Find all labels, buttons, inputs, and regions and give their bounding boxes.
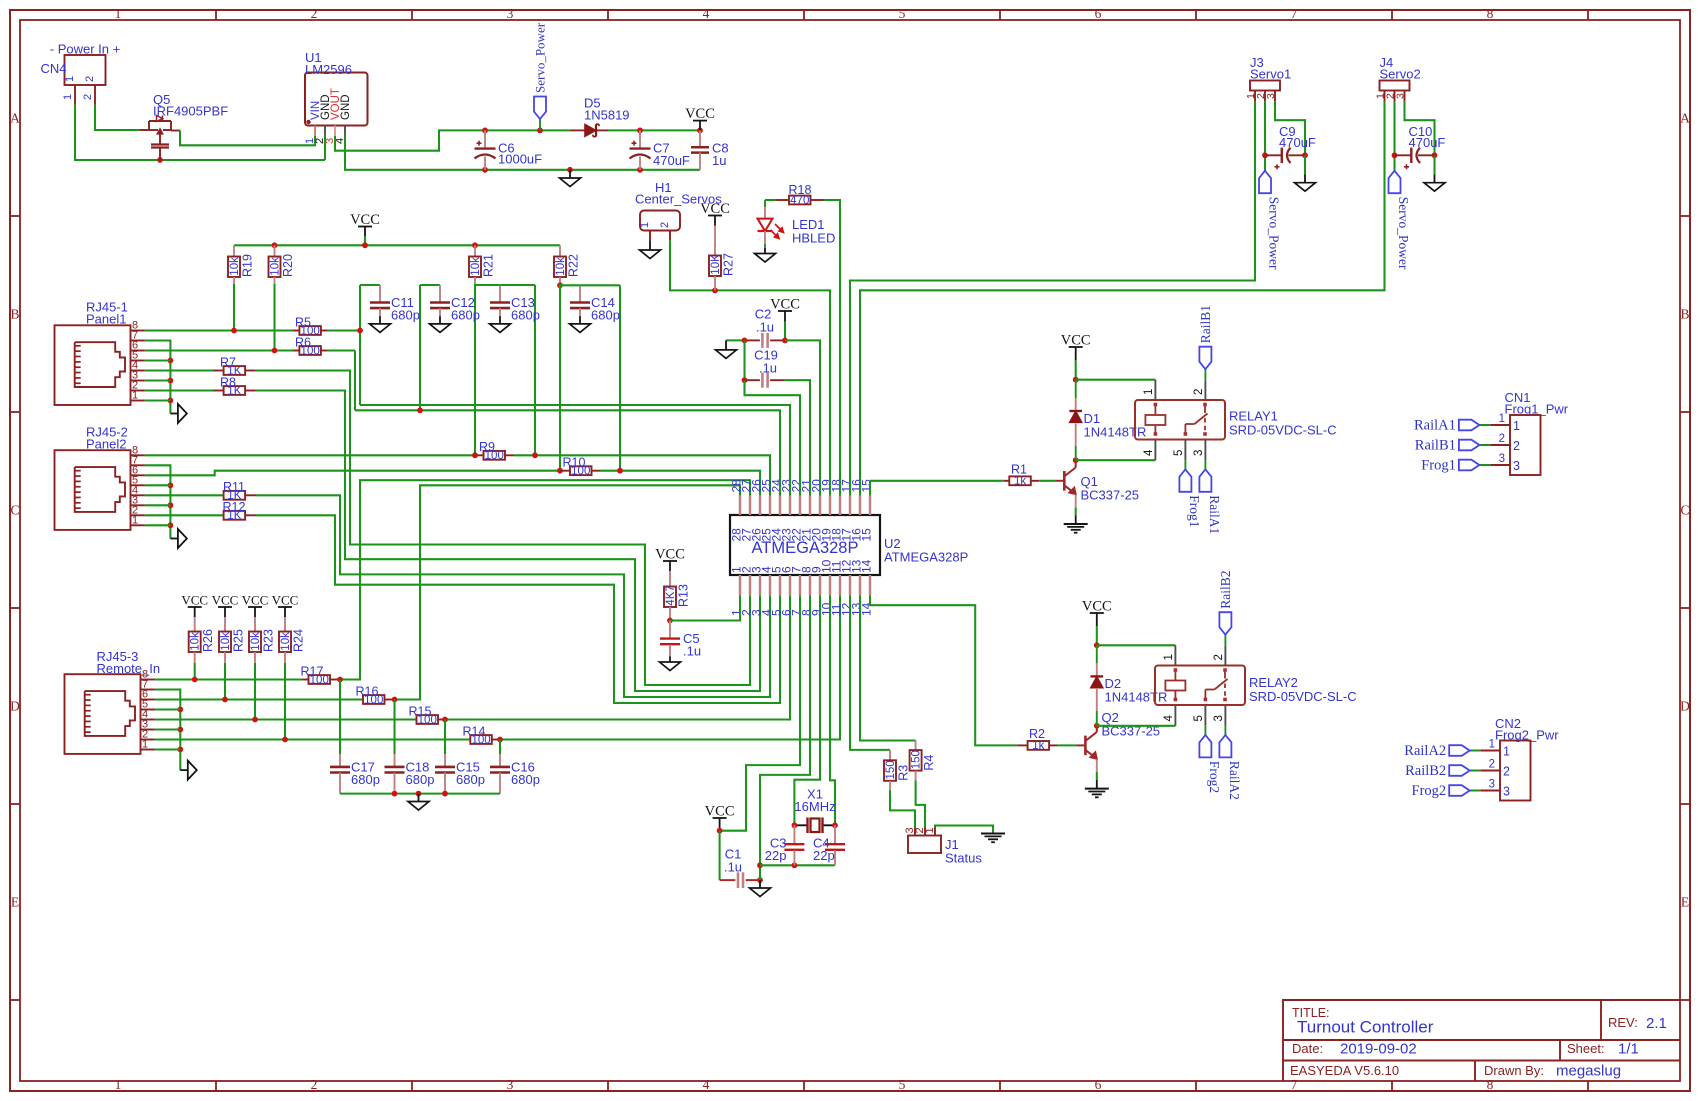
resistor R10 [560,470,570,472]
junction Q1 collector node [1073,457,1079,463]
junction R24 on pin2 line [282,737,288,743]
svg-text:R15: R15 [409,704,432,718]
junction R5/C11 node [357,328,363,334]
junction C15 on R15 line [442,717,448,723]
wire R17 to pin27 [340,480,750,679]
wire RJ45-1.2 to R8 [145,389,213,391]
ground below Q2 [1085,788,1109,790]
junction C13 on R9 line [532,452,538,458]
wire R3 to J1.3 [890,790,915,827]
connector CN4 pin 2 stub [94,85,96,105]
diode D2 [1096,645,1098,663]
svg-text:2: 2 [311,1077,318,1092]
ground below C1 [759,880,761,888]
diode D1 [1075,380,1077,398]
junction C10 left [1392,152,1398,158]
svg-text:VCC: VCC [181,593,208,608]
wire J1.1 to ground [935,826,993,834]
capacitor C2 [745,339,760,341]
junction R13/C5 node [667,618,673,624]
svg-text:Frog2: Frog2 [1207,761,1222,793]
relay RELAY1 pin2 stub [1204,380,1206,400]
mcu U2 body [730,515,880,575]
junction R26 on pin8 line [192,677,198,683]
svg-text:2: 2 [659,222,671,228]
connector H1 pin stubs [649,231,651,241]
mcu U2 top pin stubs 28-15 [739,496,742,515]
relay RELAY2 pin3 stub [1224,705,1226,726]
connector J4 pin stubs [1384,91,1386,102]
svg-text:2: 2 [1489,759,1495,771]
svg-text:1: 1 [115,6,122,21]
no-connect arrow RJ45-3 [180,769,188,771]
junction RJ45-3.3 [177,727,183,733]
svg-text:HBLED: HBLED [792,231,835,246]
wire R12 to pin5 staircase [256,515,780,703]
svg-text:2: 2 [1513,439,1520,453]
ground symbol below rail [569,170,571,178]
resistor R9 [478,454,484,456]
resistor R26 [189,632,201,653]
wire LED to R18 [765,199,776,201]
wire VCC to R13 [669,571,671,587]
crystal X1 [794,824,807,826]
wire RJ45-3.6 to R16 [155,698,363,700]
junction rail gnd [416,791,422,797]
border ruler tick marks [215,10,217,20]
svg-text:E: E [11,895,19,910]
svg-text:Drawn By:: Drawn By: [1484,1063,1544,1078]
svg-text:megaslug: megaslug [1556,1063,1621,1080]
connector CN2 pin 3 stub [1480,790,1500,792]
svg-text:RELAY2: RELAY2 [1249,675,1298,690]
svg-text:R2: R2 [1029,727,1045,741]
wire pin13 to R4 [860,595,916,740]
junction X1 right [832,822,838,828]
relay RELAY2 pin5 stub [1204,705,1206,726]
junction RJ45-3.1 [177,747,183,753]
svg-text:.1u: .1u [683,644,701,659]
wire RailA1 to CN1.1 [1479,424,1490,426]
wire pin10 to X1 right [830,595,835,825]
svg-text:1u: 1u [712,153,726,168]
junction rail VCC [362,242,368,248]
svg-text:Frog2_Pwr: Frog2_Pwr [1495,728,1559,743]
svg-text:R3: R3 [897,765,911,781]
svg-text:R18: R18 [789,183,812,197]
resistor R15 [417,715,439,724]
resistor R24 [279,632,291,653]
svg-text:RailA1: RailA1 [1207,495,1222,534]
svg-text:22p: 22p [813,848,835,863]
connector H1 box [640,211,680,231]
svg-text:Frog1: Frog1 [1187,495,1202,527]
relay RELAY2 pin2 stub [1224,646,1226,666]
capacitor C6 [484,130,486,148]
svg-text:2019-09-02: 2019-09-02 [1340,1041,1417,1058]
wire C19 right to pin21 [785,380,810,496]
svg-text:RELAY1: RELAY1 [1229,409,1278,424]
wire RJ45-3.5 [155,708,180,710]
svg-text:D: D [10,699,20,714]
svg-text:R16: R16 [356,684,379,698]
wire R27 to line [714,276,716,290]
svg-text:.1u: .1u [756,320,774,335]
wire pin7 to VCC node [720,595,800,830]
wire R26 to row [194,652,196,663]
wire pin8 to gnd rail [760,595,810,880]
svg-text:1k: 1k [1014,476,1026,488]
wire RJ45-3.3 [155,728,180,730]
diode D5 [571,129,585,131]
ground below H1.1 [649,240,651,250]
wire rail to R20 [274,245,276,256]
junction RJ45-2.5 [168,482,174,488]
svg-text:Turnout Controller: Turnout Controller [1297,1018,1434,1037]
capacitor C9 [1265,154,1282,156]
svg-text:5: 5 [899,1077,906,1092]
svg-text:4: 4 [703,6,710,21]
svg-text:4: 4 [1143,449,1155,456]
svg-text:1: 1 [142,739,148,751]
svg-text:A: A [10,111,20,126]
wire RJ45-1.6 to R6 [145,349,293,351]
svg-text:10k: 10k [270,257,282,276]
wire RJ45-2.3 [145,504,171,506]
net flag RailB2 at CN2 [1449,765,1470,776]
svg-text:3: 3 [1193,450,1205,456]
svg-text:1k: 1k [1032,740,1044,752]
resistor R25 [219,632,231,653]
svg-text:Frog1_Pwr: Frog1_Pwr [1505,402,1569,417]
svg-text:10k: 10k [229,257,241,276]
junction Q5 gate on y160 [157,157,163,163]
wire C11 node to pin23 [360,405,790,496]
junction RJ45-3.5 [177,707,183,713]
junction C18 on R16 line [392,697,398,703]
svg-text:2: 2 [1503,765,1510,779]
junction RJ45-1.5 [168,358,174,364]
capacitor C12 [430,301,450,304]
junction rail C18 [392,791,398,797]
junction top rail at C7 [637,127,643,133]
wire RJ45-2.1 [145,524,171,526]
wire C15 up to line [444,720,446,755]
connector CN1 pin 3 stub [1490,464,1510,466]
wire VCC to R24 [284,617,286,632]
svg-text:EASYEDA V5.6.10: EASYEDA V5.6.10 [1290,1063,1399,1078]
wire rail to R22 [559,245,561,256]
junction R22 on R10 line [557,468,563,474]
svg-text:.1u: .1u [724,860,742,875]
capacitor C17 [330,766,350,769]
net flag Servo_Power (source) [539,119,541,130]
wire R10 to pin26 [600,470,620,472]
resistor R13 [664,587,676,608]
svg-text:14: 14 [860,559,874,573]
svg-text:6: 6 [1095,6,1102,21]
junction D1 top node [1073,377,1079,383]
svg-text:1: 1 [132,390,138,402]
junction rail R21 [472,242,478,248]
svg-text:Panel2: Panel2 [86,436,126,451]
wire R9 to pin25 [514,454,536,456]
capacitor C4 [834,825,836,843]
svg-text:CN4: CN4 [41,61,67,76]
wire R18 to pin18 [824,200,840,496]
resistor R6 [293,350,299,352]
svg-text:680p: 680p [406,772,435,787]
resistor R7 [213,370,224,372]
wire RailB1 to CN1.2 [1479,444,1490,446]
wire J4.3 to cap [1405,101,1435,155]
wire R6 to pin24 corner [327,349,355,351]
capacitor C13 [490,301,510,304]
svg-text:2: 2 [82,94,94,100]
svg-text:RailB2: RailB2 [1405,763,1446,779]
wire RJ45-3.8 to R17 [155,678,302,680]
wire R23 to row [254,652,256,663]
wire VCC to R26 [194,617,196,632]
svg-text:E: E [1681,895,1689,910]
wire RJ45-2.6 to R10 [145,471,560,476]
svg-text:10k: 10k [250,632,262,651]
junction R19 on pin8 line [231,328,237,334]
svg-text:1: 1 [924,827,936,833]
wire J4.2 down [1393,101,1395,171]
resistor R16 [363,695,385,704]
connector J1 pin stubs [914,828,916,836]
ground below C11 [370,324,391,333]
wire RJ45-2.4 to R11 [145,494,224,496]
wire U1.2 gnd to y160 [324,136,326,160]
regulator U1 first pin dot [306,120,310,124]
svg-text:3: 3 [1213,715,1225,721]
junction C9 right [1302,152,1308,158]
ground below C10 [1433,155,1435,174]
wire RJ45-2.2 to R12 [145,514,224,516]
svg-text:R19: R19 [241,254,255,277]
svg-text:Panel1: Panel1 [86,311,126,326]
connector CN4 pin 1 stub [74,85,76,105]
connector RJ45-2 box [55,450,131,530]
relay RELAY1 pin5 stub [1184,440,1186,461]
svg-text:Remote_In: Remote_In [97,661,161,676]
net flag RailA1 [1199,469,1211,492]
svg-text:R1: R1 [1011,462,1027,476]
net flag RailA2 at CN2 [1449,745,1470,756]
no-connect arrow RJ45-2 [170,538,178,540]
svg-text:680p: 680p [511,772,540,787]
wire rail to R21 [474,245,476,256]
regulator U1 box [305,73,368,126]
svg-text:BC337-25: BC337-25 [1081,488,1140,503]
ground below cap rail [418,794,420,802]
svg-text:1: 1 [132,514,138,526]
svg-text:Frog2: Frog2 [1412,783,1447,799]
svg-text:1: 1 [1499,413,1505,425]
svg-text:R20: R20 [281,254,295,277]
wire R5 to C11 node [327,329,360,331]
svg-text:8: 8 [1487,6,1494,21]
capacitor C7 [639,130,641,148]
wire R21 bottom stub [474,277,476,284]
wire RJ45-1.5 [145,359,171,361]
resistor R4 [915,741,917,751]
ground below C5 [660,662,681,671]
wire Q2 emitter to gnd [1096,759,1098,772]
svg-text:2: 2 [1499,433,1505,445]
svg-text:R9: R9 [479,440,495,454]
wire RJ45-3.7 join vertical [155,690,180,771]
svg-text:10k: 10k [470,257,482,276]
resistor R2 [1018,744,1028,746]
svg-text:4K7: 4K7 [665,585,677,605]
capacitor C10 [1395,154,1412,156]
svg-text:1: 1 [1513,419,1520,433]
regulator U1 pin 2 stub [324,126,326,136]
svg-text:22p: 22p [765,848,787,863]
connector RJ45-3 box [65,674,141,754]
svg-text:3: 3 [1489,779,1495,791]
svg-text:D: D [1680,699,1690,714]
junction VCC C1 node [717,828,723,834]
svg-text:GND: GND [340,94,352,120]
wire C14 top [560,284,580,286]
svg-text:680p: 680p [456,772,485,787]
relay RELAY2 [1155,666,1245,706]
svg-text:10k: 10k [220,632,232,651]
capacitor C15 [435,766,455,769]
resistor R23 [249,632,261,653]
svg-text:R22: R22 [567,254,581,277]
capacitor C19 [745,379,760,381]
svg-text:R13: R13 [677,584,691,607]
wire R20 to R6 line [273,284,275,351]
svg-text:680p: 680p [391,308,420,323]
wire RJ45-3.4 to R15 [155,718,417,720]
wire C19 left to pin22 [745,380,801,496]
junction rail C15 [442,791,448,797]
junction R20 on pin6 line [272,348,278,354]
svg-text:3: 3 [1265,93,1277,99]
wire crystal cap rail [760,864,835,866]
junction rail R20 [272,242,278,248]
wire RailA2 to CN2.1 [1470,749,1481,751]
wire R19 to R5 line [233,284,235,331]
connector CN4 box [65,55,106,85]
wire H1.2 to pin19 line [670,240,830,495]
svg-text:R23: R23 [262,629,276,652]
wire RJ45-2.7 join vertical [145,465,171,538]
svg-text:R8: R8 [220,375,236,389]
wire RJ45-1.8 to R5 [145,329,293,331]
svg-text:1: 1 [639,222,651,228]
wire CN4.2 to Q5 source [95,105,140,130]
svg-text:1000uF: 1000uF [498,152,542,167]
wire pin14 to R2 [870,595,1018,745]
no-connect arrow RJ45-1 [170,413,178,415]
net flag RailB1 [1199,347,1211,370]
wire C12 vertical to R6/pin24 line [419,285,421,410]
wire RJ45-1.4 to R7 [145,369,213,371]
svg-text:680p: 680p [591,308,620,323]
junction crystal rail left [757,862,763,868]
resistor R12 [224,511,246,520]
wire R22 bottom stub [559,277,561,284]
resistor R14 [470,735,492,744]
svg-text:R24: R24 [292,629,306,652]
wire C13 vertical to R9 line [534,285,536,455]
svg-text:R10: R10 [563,456,586,470]
wire RJ45-1.7 join vertical [145,341,171,414]
capacitor C8 [699,130,701,147]
svg-text:470uF: 470uF [1409,135,1446,150]
wire R14 to pin11 [500,595,840,739]
svg-text:VCC: VCC [272,593,299,608]
junction C10 right [1432,152,1438,158]
transistor Q2 [1084,736,1087,756]
wire C12 top [420,284,440,286]
svg-text:1: 1 [64,76,76,82]
wire bottom rail [570,169,700,171]
resistor R1 [1004,480,1010,482]
svg-text:RailA2: RailA2 [1227,761,1242,800]
svg-text:3: 3 [1503,785,1510,799]
wire Frog2 to CN2.3 [1470,789,1481,791]
wire RJ45-1.3 [145,379,171,381]
ground below Q1 [1064,523,1088,525]
svg-text:1: 1 [1163,654,1175,660]
ground below LED1 [764,248,766,254]
svg-text:150: 150 [911,750,923,769]
resistor R18 [776,199,790,201]
junction R27 on H1 line [712,288,718,294]
junction D2 top node [1094,642,1100,648]
wire Q1 emitter to gnd [1075,495,1077,508]
connector CN1 box [1510,415,1541,475]
capacitor C1 [719,831,721,880]
regulator U1 pin 4 stub [344,126,346,136]
connector J4 box [1380,81,1410,91]
relay RELAY1 [1135,400,1225,440]
svg-text:RailB2: RailB2 [1218,570,1233,608]
svg-text:R11: R11 [223,480,245,494]
wire R7 to pin2 staircase [255,371,750,686]
svg-text:R12: R12 [223,500,246,514]
svg-text:RailB1: RailB1 [1198,305,1213,343]
svg-text:150: 150 [885,760,897,779]
junction C19 left [742,377,748,383]
connector RJ45-2 pin stubs [131,454,145,456]
svg-text:680p: 680p [451,308,480,323]
junction C3 on rail [792,862,798,868]
net flag Frog2 [1199,735,1211,758]
junction top rail at VCC C8 [697,127,703,133]
svg-text:C: C [1680,503,1689,518]
connector RJ45-1 pin stubs [131,330,145,332]
net flag RailA1 at CN1 [1459,420,1480,431]
wire J3.2 down [1264,101,1266,171]
svg-text:Servo_Power: Servo_Power [1396,197,1411,270]
svg-text:3: 3 [1395,93,1407,99]
connector J1 box [908,836,941,854]
capacitor C5 [669,621,671,639]
wire RJ45-1.1 [145,399,171,401]
wire VCC to R25 [224,617,226,632]
svg-text:R4: R4 [922,755,936,771]
svg-text:1N4148TR: 1N4148TR [1105,690,1168,705]
